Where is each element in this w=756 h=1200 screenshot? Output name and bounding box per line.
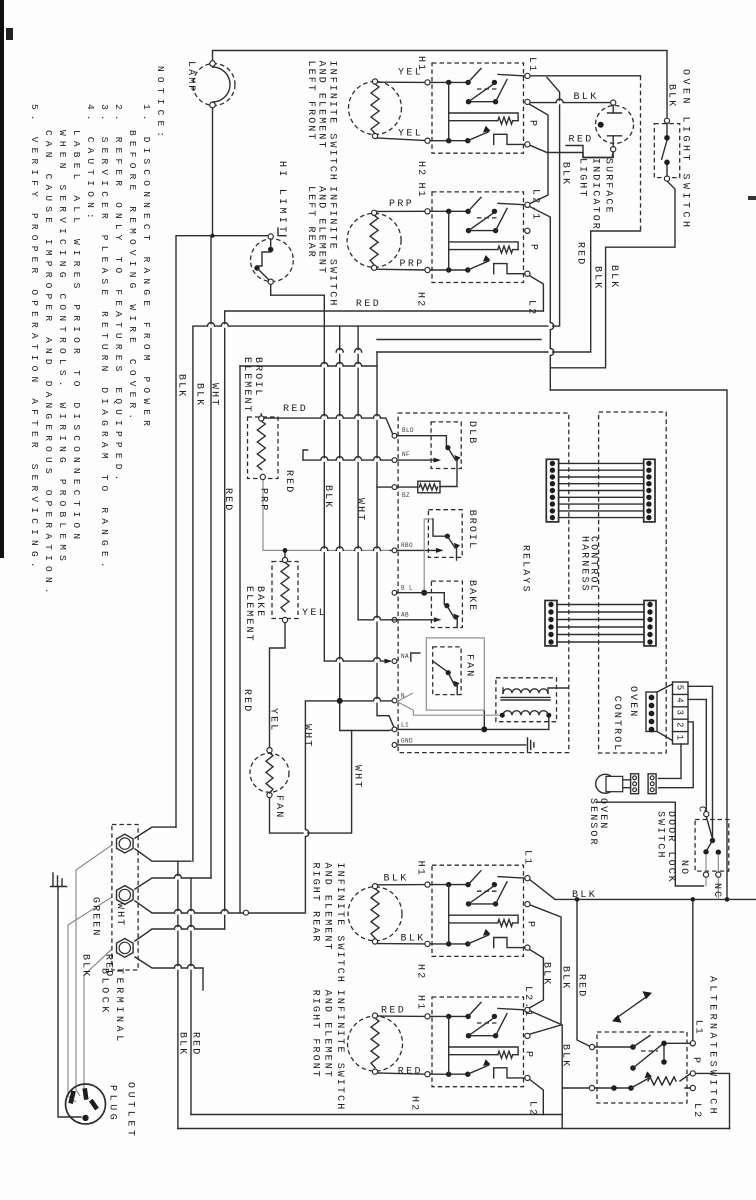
svg-text:2: 2 bbox=[675, 722, 685, 727]
svg-text:B L: B L bbox=[401, 585, 413, 592]
svg-text:DLB: DLB bbox=[466, 421, 477, 445]
svg-text:RED: RED bbox=[574, 242, 585, 266]
relay DLB bbox=[431, 422, 461, 469]
svg-text:HI LIMIT: HI LIMIT bbox=[276, 161, 287, 235]
svg-text:WHT: WHT bbox=[302, 724, 313, 748]
wire: right-rear mid diagonal trunk to right-front mid bbox=[530, 905, 562, 1034]
bake element bbox=[272, 562, 298, 619]
wire: transformer right lead drop bbox=[548, 715, 550, 729]
svg-text:1: 1 bbox=[675, 735, 685, 740]
BLK line junction dots bbox=[575, 897, 580, 902]
left rear element bbox=[347, 213, 401, 267]
wire: line B y=326.1 BLK backbone from trunk to L1 trunk bbox=[193, 78, 560, 862]
svg-text:BLK: BLK bbox=[177, 1032, 188, 1056]
wire: right-front L2.1 node down the L2 drop bbox=[529, 1011, 562, 1129]
wire: oven light switch bottom drop bbox=[550, 181, 675, 368]
svg-text:AB: AB bbox=[401, 612, 409, 619]
svg-text:PRP: PRP bbox=[400, 259, 425, 270]
svg-text:HARNESS: HARNESS bbox=[578, 536, 589, 593]
svg-text:RED: RED bbox=[356, 299, 381, 310]
svg-text:LEFT REAR: LEFT REAR bbox=[305, 186, 316, 259]
wire: RED line y=352 to v377 bbox=[377, 352, 394, 728]
svg-text:L2.1: L2.1 bbox=[522, 986, 533, 1018]
wire: bottom outer line y=1128.5 bbox=[178, 1128, 730, 1130]
svg-text:INFINITE SWITCH: INFINITE SWITCH bbox=[334, 990, 345, 1112]
terminal line bead bbox=[244, 910, 249, 915]
wire: long BLK L1 line right section bbox=[555, 898, 756, 900]
svg-text:ELEMENT: ELEMENT bbox=[243, 586, 254, 643]
svg-text:NOTICE:: NOTICE: bbox=[155, 66, 166, 142]
wire: right-rear P trunk to right-front L2.1 bbox=[529, 950, 543, 1009]
svg-text:BEFORE REMOVING WIRE COVER.: BEFORE REMOVING WIRE COVER. bbox=[127, 130, 138, 424]
svg-text:GREEN: GREEN bbox=[90, 897, 101, 938]
wire: NO drop bbox=[705, 877, 707, 886]
svg-text:P: P bbox=[525, 921, 536, 929]
wire: hi-limit bottom to jog bbox=[271, 284, 325, 295]
wire: right-rear L1 diagonal bbox=[530, 880, 555, 900]
wire hop bumps horizontal bbox=[174, 99, 563, 970]
svg-text:P: P bbox=[690, 1057, 701, 1065]
wire: door lock 4-wire to C bbox=[688, 699, 706, 811]
relay BAKE bbox=[431, 581, 462, 627]
infinite switch right front bbox=[432, 997, 524, 1087]
surface light RED lead from P bbox=[530, 145, 610, 157]
svg-text:CAN CAUSE IMPROPER AND DANGERO: CAN CAUSE IMPROPER AND DANGEROUS OPERATI… bbox=[43, 130, 54, 599]
wire: alt switch H2 line bbox=[562, 1087, 590, 1089]
wire: sensor 2-wire bbox=[659, 722, 694, 788]
terminal block bbox=[112, 825, 138, 971]
wire: RED trunk v240 bbox=[239, 366, 241, 913]
wire: terminal screw3 lower stub bbox=[135, 957, 203, 990]
svg-text:RED: RED bbox=[222, 488, 233, 512]
svg-text:WHT: WHT bbox=[355, 498, 366, 522]
wire: T4 arrow segment bbox=[390, 549, 440, 551]
svg-text:YEL: YEL bbox=[398, 129, 423, 140]
svg-text:N: N bbox=[401, 693, 405, 700]
wire: NC drop bbox=[717, 877, 719, 899]
wire: alt switch L1 riser from BLK line bbox=[692, 899, 694, 1040]
harness connector pair bottom bbox=[545, 601, 557, 646]
svg-text:INDICATOR: INDICATOR bbox=[590, 158, 601, 231]
svg-text:P: P bbox=[528, 244, 539, 252]
wire: broil element top RED line to relay T1 bbox=[261, 414, 392, 434]
infinite switch left rear bbox=[432, 192, 524, 283]
relay FAN bbox=[426, 638, 484, 710]
svg-text:H1: H1 bbox=[415, 861, 426, 877]
svg-text:5. VERIFY PROPER OPERATION AFT: 5. VERIFY PROPER OPERATION AFTER SERVICI… bbox=[29, 104, 40, 573]
wire: bottom inner line y=1114.5 bbox=[191, 1114, 562, 1116]
infinite switch right rear bbox=[432, 865, 524, 956]
svg-text:4: 4 bbox=[675, 697, 685, 702]
svg-text:SURFACE: SURFACE bbox=[603, 158, 614, 215]
svg-text:RED: RED bbox=[241, 689, 252, 713]
svg-text:WHT: WHT bbox=[114, 903, 125, 927]
svg-text:NF: NF bbox=[402, 451, 410, 458]
svg-text:AND ELEMENT: AND ELEMENT bbox=[322, 990, 333, 1079]
svg-text:BLK: BLK bbox=[560, 1044, 571, 1068]
svg-text:H2: H2 bbox=[409, 1096, 420, 1112]
svg-text:BLK: BLK bbox=[572, 890, 597, 901]
svg-text:RELAYS: RELAYS bbox=[520, 545, 531, 594]
chassis ground left bbox=[51, 873, 67, 888]
svg-text:WHT: WHT bbox=[351, 765, 362, 789]
svg-text:RED: RED bbox=[283, 404, 308, 415]
svg-text:BLK: BLK bbox=[176, 374, 187, 398]
wire: terminal screw1 upper stub bbox=[135, 827, 176, 838]
svg-text:BLK: BLK bbox=[384, 874, 409, 885]
wire: trunk v358.1 bbox=[357, 326, 359, 620]
wire: hi-limit top feed line with left rail corner bbox=[176, 236, 269, 827]
alternate switch bbox=[597, 1032, 687, 1103]
oven light switch bbox=[654, 124, 679, 178]
wire: h339 connector bbox=[377, 339, 541, 341]
wire: outlet black lead bbox=[76, 845, 112, 1096]
svg-text:PRP: PRP bbox=[258, 488, 269, 512]
harness connector pair top bbox=[546, 459, 558, 522]
wire: outlet white lead bbox=[68, 897, 112, 1102]
svg-text:H2: H2 bbox=[414, 292, 425, 308]
wire: top L1 line from lamp to oven light switch bbox=[213, 51, 668, 119]
svg-text:RED: RED bbox=[190, 1032, 201, 1056]
wire: transformer left lead gray bbox=[413, 710, 501, 715]
hi-limit bbox=[251, 239, 294, 282]
wire: lamp bottom down to hi-limit feed line bbox=[212, 106, 214, 236]
svg-text:YEL: YEL bbox=[398, 68, 423, 79]
svg-text:INFINITE SWITCH: INFINITE SWITCH bbox=[334, 863, 345, 985]
broil element bbox=[248, 417, 279, 479]
svg-text:WHT: WHT bbox=[209, 383, 220, 407]
wire: sensor 1-wire bbox=[659, 744, 681, 778]
svg-text:BLK: BLK bbox=[193, 383, 204, 407]
svg-text:PRP: PRP bbox=[389, 199, 414, 210]
svg-text:DOOR LOCK: DOOR LOCK bbox=[665, 811, 676, 884]
svg-text:YEL: YEL bbox=[267, 708, 278, 732]
outlet plug bbox=[66, 1084, 106, 1124]
svg-text:L2.1: L2.1 bbox=[530, 189, 541, 221]
wire: dashed enclosure drop x640 bbox=[640, 76, 642, 231]
wire: sensor left horizontal to door lock riser bbox=[596, 802, 704, 886]
svg-text:INFINITE SWITCH: INFINITE SWITCH bbox=[327, 186, 338, 308]
svg-text:BLK: BLK bbox=[80, 954, 91, 978]
svg-text:L1: L1 bbox=[522, 850, 533, 866]
svg-text:5: 5 bbox=[675, 685, 685, 690]
svg-text:BAKE: BAKE bbox=[254, 586, 265, 618]
wire: left-rear L2.1 trunk down to L2 long line bbox=[530, 207, 551, 391]
svg-text:RED: RED bbox=[576, 974, 587, 998]
svg-text:BAKE: BAKE bbox=[466, 580, 477, 612]
svg-text:BZ: BZ bbox=[402, 492, 410, 499]
svg-text:BROIL: BROIL bbox=[252, 357, 263, 398]
wire: fan bottom loop to riser bbox=[270, 731, 352, 834]
svg-text:AND ELEMENT: AND ELEMENT bbox=[316, 61, 327, 150]
wire: right-front P drop to bottom line bbox=[530, 1079, 544, 1114]
double arrow bbox=[615, 995, 649, 1019]
svg-text:RED: RED bbox=[283, 470, 294, 494]
wire: outlet red lead bbox=[84, 949, 112, 1094]
svg-text:BLD: BLD bbox=[402, 427, 414, 434]
wire: fan relay box drop to T9 junction bbox=[483, 710, 485, 729]
svg-text:OUTLET: OUTLET bbox=[125, 1082, 136, 1140]
wire: terminal screw1 lower stub bbox=[135, 849, 191, 861]
svg-text:BLK: BLK bbox=[592, 266, 603, 290]
wire: relay T9 line to transformer and junction bbox=[397, 728, 549, 730]
svg-text:RBO: RBO bbox=[401, 542, 413, 549]
door lock switch bbox=[695, 820, 729, 872]
wire: L1 to surface feed corner x640 bbox=[530, 75, 641, 77]
wire: relay GND T10 line bbox=[397, 744, 526, 746]
svg-text:ELEMENT: ELEMENT bbox=[241, 357, 252, 414]
wire: WHT riser from terminal line to relay N bbox=[305, 701, 392, 912]
svg-text:ALTERNATESWITCH: ALTERNATESWITCH bbox=[707, 976, 718, 1117]
svg-text:BLK: BLK bbox=[401, 934, 426, 945]
svg-text:H1: H1 bbox=[415, 995, 426, 1011]
svg-text:RIGHT REAR: RIGHT REAR bbox=[310, 863, 321, 944]
svg-text:BLOCK: BLOCK bbox=[99, 968, 110, 1016]
svg-text:BROIL: BROIL bbox=[466, 510, 477, 551]
svg-text:3: 3 bbox=[675, 710, 685, 715]
svg-text:L2: L2 bbox=[526, 300, 537, 316]
svg-text:FAN: FAN bbox=[273, 795, 284, 819]
control harness dashed box bbox=[599, 412, 667, 753]
wire: mid-terminal diagonal to inner trunk bbox=[529, 104, 548, 204]
surface indicator light bbox=[596, 106, 634, 144]
svg-text:BLK: BLK bbox=[666, 84, 677, 108]
wire: trunk v339.7 bbox=[339, 326, 341, 701]
wire: relay T2 feed line bbox=[303, 450, 308, 460]
relay BROIL bbox=[428, 510, 462, 558]
svg-text:RIGHT FRONT: RIGHT FRONT bbox=[310, 990, 321, 1079]
svg-text:H2: H2 bbox=[415, 964, 426, 980]
svg-text:WHEN SERVICING CONTROLS. WIRIN: WHEN SERVICING CONTROLS. WIRING PROBLEMS bbox=[57, 130, 68, 566]
wire: door lock 5-wire bbox=[688, 686, 713, 838]
oven sensor bbox=[596, 774, 615, 793]
junction lamp line bbox=[211, 234, 215, 238]
svg-text:CONTROL: CONTROL bbox=[611, 696, 622, 753]
fan motor bbox=[250, 753, 289, 792]
wire: bottom outer left riser bbox=[177, 861, 179, 1128]
svg-text:LIGHT: LIGHT bbox=[577, 158, 588, 199]
wire: v339.7 lower to T9 bbox=[340, 701, 393, 731]
wire: h366 from RED trunk bbox=[240, 365, 377, 367]
svg-text:PLUG: PLUG bbox=[107, 1085, 118, 1123]
svg-text:GND: GND bbox=[401, 738, 413, 745]
svg-text:LAMP: LAMP bbox=[185, 61, 196, 93]
wire: outlet green lead bbox=[58, 888, 81, 1117]
svg-text:OVEN LIGHT SWITCH: OVEN LIGHT SWITCH bbox=[680, 69, 691, 231]
svg-text:2. REFER ONLY TO FEATURES EQUI: 2. REFER ONLY TO FEATURES EQUIPPED. bbox=[113, 104, 124, 486]
svg-text:L2: L2 bbox=[527, 1101, 538, 1117]
wire hop bumps vertical bbox=[304, 323, 554, 837]
wire: terminal screw2 lower long line bbox=[135, 901, 305, 913]
wire: vertical 324.3 hi-limit to T7 fan relay elbow bbox=[324, 295, 390, 661]
svg-text:4. CAUTION:: 4. CAUTION: bbox=[85, 104, 96, 224]
svg-text:BLK: BLK bbox=[560, 162, 571, 186]
svg-text:L1: L1 bbox=[526, 57, 537, 73]
wire: relay T3 short feed bbox=[377, 486, 418, 488]
svg-text:C: C bbox=[696, 806, 707, 814]
right rear element bbox=[348, 887, 402, 941]
transformer bbox=[496, 678, 557, 722]
svg-text:RED: RED bbox=[569, 135, 594, 146]
svg-text:SWITCH: SWITCH bbox=[655, 811, 666, 860]
svg-text:BLK: BLK bbox=[560, 966, 571, 990]
wire: L2 long line to right side drop bbox=[550, 390, 727, 899]
numbered strip bbox=[673, 682, 689, 744]
svg-text:L1: L1 bbox=[401, 722, 409, 729]
wire: hi-limit top stub bbox=[278, 228, 286, 236]
wire: broil element bottom gray PRP path to relay T4 bbox=[263, 480, 390, 550]
wire: corner to RED trunk bbox=[377, 231, 641, 352]
oven control connector bbox=[646, 692, 657, 732]
wire: surface light RED lead bbox=[566, 146, 613, 158]
svg-text:AND ELEMENT: AND ELEMENT bbox=[316, 186, 327, 275]
svg-text:3. SERVICER PLEASE RETURN DIAG: 3. SERVICER PLEASE RETURN DIAGRAM TO RAN… bbox=[99, 104, 110, 573]
wire: left rear P diagonal and drop bbox=[530, 276, 544, 311]
wire: bake element bottom YEL to fan top bbox=[270, 620, 286, 748]
wire: terminal screw3 upper stub to WHT trunk bbox=[135, 929, 225, 941]
svg-text:NA: NA bbox=[401, 653, 409, 660]
svg-text:YEL: YEL bbox=[302, 608, 327, 619]
svg-text:H1: H1 bbox=[415, 183, 426, 199]
svg-text:H2: H2 bbox=[415, 161, 426, 177]
svg-text:1. DISCONNECT RANGE FROM POWER: 1. DISCONNECT RANGE FROM POWER bbox=[141, 104, 152, 431]
svg-text:L2: L2 bbox=[691, 1103, 702, 1119]
svg-text:NC: NC bbox=[711, 883, 722, 899]
wire: lamp return trunk continues down bbox=[210, 236, 212, 878]
svg-text:AND ELEMENT: AND ELEMENT bbox=[322, 863, 333, 952]
wire: terminal screw2 upper stub to lamp trunk bbox=[135, 878, 211, 889]
infinite switch left front bbox=[432, 63, 524, 153]
wire: RED drop to alternate switch H1 bbox=[577, 899, 590, 1046]
ground at relay T10 bbox=[528, 738, 534, 752]
left front element bbox=[349, 82, 402, 135]
svg-text:FAN: FAN bbox=[464, 654, 475, 678]
svg-text:BLK: BLK bbox=[322, 485, 333, 509]
wire: gray riser to bake junction bbox=[423, 519, 425, 593]
svg-text:L1: L1 bbox=[692, 1020, 703, 1036]
wire: alt switch P to bottom corner bbox=[695, 1073, 729, 1128]
svg-text:BLK: BLK bbox=[541, 962, 552, 986]
lamp bbox=[193, 64, 235, 106]
svg-text:LABEL ALL WIRES PRIOR TO DISCO: LABEL ALL WIRES PRIOR TO DISCONNECTION bbox=[71, 130, 82, 544]
page edge artifacts bbox=[0, 0, 4, 558]
svg-text:RED: RED bbox=[398, 1067, 423, 1078]
wire: line A y=311 from WHT trunk elbow to left-rear P trunk bbox=[225, 311, 544, 929]
svg-text:P: P bbox=[526, 120, 537, 128]
right front element bbox=[348, 1016, 403, 1071]
wire: left-front mid terminal to surface light BLK bbox=[530, 102, 611, 104]
wire: bottom inner corner riser bbox=[190, 878, 192, 1115]
svg-text:INFINITE SWITCH: INFINITE SWITCH bbox=[327, 61, 338, 183]
relay board terminals bbox=[392, 433, 397, 438]
svg-text:TERMINAL: TERMINAL bbox=[113, 968, 124, 1045]
svg-text:BLK: BLK bbox=[574, 92, 599, 103]
svg-text:NO: NO bbox=[678, 860, 689, 876]
svg-text:RED: RED bbox=[381, 1006, 406, 1017]
relays board dashed box bbox=[398, 413, 569, 753]
svg-text:OVEN: OVEN bbox=[627, 686, 638, 718]
svg-text:SENSOR: SENSOR bbox=[587, 798, 598, 847]
svg-text:LEFT FRONT: LEFT FRONT bbox=[305, 61, 316, 142]
svg-text:BLK: BLK bbox=[608, 265, 619, 289]
svg-text:P: P bbox=[523, 1051, 534, 1059]
